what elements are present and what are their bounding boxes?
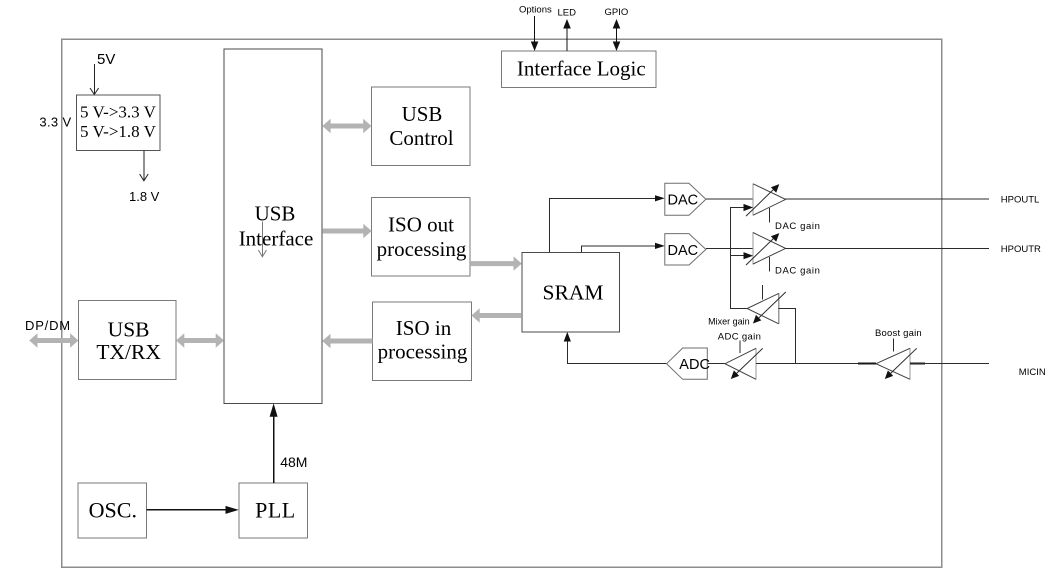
svg-text:DP/DM: DP/DM — [25, 318, 71, 333]
svg-text:USB: USB — [402, 102, 443, 126]
svg-text:ADC: ADC — [679, 357, 710, 373]
wire regulator to 1.8V — [140, 151, 149, 181]
svg-text:processing: processing — [378, 339, 468, 363]
gray arrow ISO out to SRAM — [470, 256, 522, 270]
svg-text:SRAM: SRAM — [543, 280, 604, 304]
node 5V label — [97, 51, 115, 68]
gray arrow ISO in to USB Interface — [322, 334, 372, 348]
node GPIO label — [605, 7, 629, 18]
ADC converter — [667, 348, 710, 379]
svg-text:processing: processing — [377, 237, 467, 261]
svg-text:ADC gain: ADC gain — [718, 331, 761, 342]
DAC L converter — [665, 183, 706, 215]
wire SRAM to DAC R — [582, 243, 665, 253]
block OSC — [78, 483, 147, 538]
label DAC gain R — [775, 266, 820, 277]
svg-text:5 V->3.3 V: 5 V->3.3 V — [80, 103, 157, 122]
chip outer boundary — [62, 39, 942, 567]
wire Interface Logic to LED — [563, 19, 571, 51]
wire DAC L to amp — [706, 198, 753, 200]
wire GPIO bidirectional — [613, 19, 621, 51]
amplifier DAC gain L — [746, 183, 786, 222]
block SRAM — [522, 253, 620, 332]
wire segment thick left of boost amp — [858, 363, 876, 365]
gray arrow SRAM to ISO in — [471, 308, 521, 322]
svg-text:LED: LED — [558, 8, 577, 19]
block ISO out processing — [372, 197, 471, 276]
wire ADC to SRAM — [564, 332, 667, 364]
wire SRAM to DAC L — [550, 195, 665, 253]
svg-text:Control: Control — [389, 126, 453, 150]
node LED label — [558, 8, 577, 19]
svg-text:DAC gain: DAC gain — [775, 266, 820, 277]
gray arrow USB Interface to USB Control (bidirectional) — [322, 119, 371, 133]
label ADC gain — [718, 331, 761, 342]
label DAC gain L — [775, 221, 820, 232]
svg-text:5V: 5V — [97, 51, 115, 68]
node HPOUTL label — [1001, 195, 1040, 206]
block PLL — [239, 483, 308, 538]
node Options label — [519, 5, 552, 16]
wire ADC gain amp to boost amp — [756, 363, 876, 365]
node 3.3V label — [39, 114, 71, 129]
wire PLL to USB Interface 48M — [270, 403, 278, 482]
wire DAC R to amp — [706, 248, 753, 250]
wire mixer input from mic line — [779, 309, 796, 364]
svg-text:Interface: Interface — [239, 226, 314, 250]
block USB Control — [372, 87, 471, 165]
svg-text:ISO out: ISO out — [388, 212, 454, 236]
amplifier Boost gain — [876, 338, 917, 379]
amplifier Mixer gain — [747, 285, 786, 324]
label Mixer gain — [708, 316, 750, 326]
block Interface Logic — [502, 51, 656, 88]
svg-text:ISO in: ISO in — [396, 316, 452, 340]
svg-text:Boost gain: Boost gain — [875, 328, 922, 339]
svg-text:Options: Options — [519, 5, 552, 16]
svg-text:Interface Logic: Interface Logic — [517, 57, 646, 81]
wire 5V to regulator — [90, 64, 99, 95]
wire OSC to PLL — [147, 506, 239, 514]
svg-text:3.3 V: 3.3 V — [39, 114, 71, 129]
label Boost gain — [875, 328, 922, 339]
gray arrow DP/DM to USB TX/RX (bidirectional) — [29, 333, 78, 347]
svg-text:1.8 V: 1.8 V — [129, 189, 160, 204]
svg-text:HPOUTL: HPOUTL — [1001, 195, 1040, 206]
regulator block 5V converter — [76, 95, 160, 151]
wire amp R to HPOUTR — [786, 248, 989, 250]
svg-text:MICIN: MICIN — [1019, 367, 1046, 378]
wire Options to Interface Logic — [531, 16, 539, 51]
amplifier DAC gain R — [746, 232, 786, 271]
node MICIN label — [1019, 367, 1046, 378]
block ISO in processing — [373, 302, 472, 380]
node HPOUTR label — [1001, 244, 1041, 255]
svg-text:Mixer gain: Mixer gain — [708, 316, 750, 326]
block USB TX/RX — [78, 300, 176, 379]
gray arrow USB Interface to ISO out — [322, 224, 371, 238]
DAC R converter — [665, 234, 706, 265]
svg-text:TX/RX: TX/RX — [96, 340, 161, 364]
wire mixer output bus to DAC amps — [730, 204, 753, 309]
svg-text:USB: USB — [255, 201, 296, 225]
amplifier ADC gain — [725, 340, 763, 379]
gray arrow USB TX/RX to USB Interface (bidirectional) — [176, 333, 224, 347]
svg-text:DAC: DAC — [668, 243, 699, 259]
svg-text:OSC.: OSC. — [89, 498, 137, 523]
node 48M label — [280, 454, 307, 470]
svg-text:GPIO: GPIO — [605, 7, 629, 18]
wire ADC to ADC gain amp — [707, 363, 725, 365]
node 1.8V label — [129, 189, 160, 204]
svg-text:5 V->1.8 V: 5 V->1.8 V — [80, 122, 157, 141]
block USB Interface — [224, 49, 322, 403]
wire amp L to HPOUTL — [786, 198, 989, 200]
svg-text:PLL: PLL — [255, 498, 296, 523]
node DP/DM label — [25, 318, 71, 333]
svg-text:DAC: DAC — [668, 193, 699, 209]
svg-text:48M: 48M — [280, 454, 307, 470]
svg-text:DAC gain: DAC gain — [775, 221, 820, 232]
svg-text:USB: USB — [108, 318, 150, 342]
wire boost amp to MICIN — [910, 363, 989, 365]
wire down-arrow inside USB Interface — [258, 222, 266, 257]
wire segment thick right of boost amp — [910, 363, 925, 365]
svg-text:HPOUTR: HPOUTR — [1001, 244, 1041, 255]
